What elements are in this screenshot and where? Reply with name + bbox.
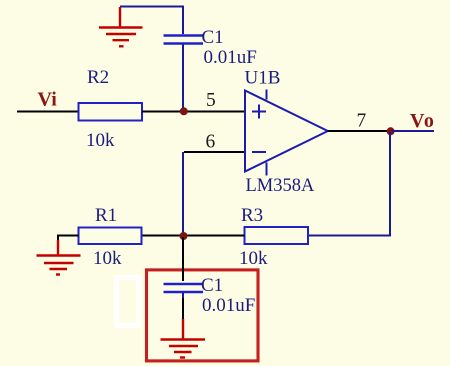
svg-text:LM358A: LM358A <box>246 176 316 196</box>
svg-text:5: 5 <box>206 90 216 111</box>
svg-text:R1: R1 <box>95 205 117 226</box>
svg-text:Vi: Vi <box>38 89 58 111</box>
wire C1 bottom to gnd <box>182 298 184 320</box>
wire R1 to gnd corner <box>58 236 79 242</box>
wire Vi input <box>17 111 78 113</box>
ground GND-bottom <box>161 319 206 358</box>
white artifact rectangle <box>117 278 139 326</box>
junction node 6 bottom <box>180 232 188 240</box>
capacitor C1 bottom <box>164 284 204 292</box>
junction node 5 <box>180 107 188 115</box>
wire node6 to C1 bottom <box>182 237 184 281</box>
wire node5 to pin5 <box>183 111 245 113</box>
resistor R2 <box>79 103 143 121</box>
wire top gnd to C1 <box>120 7 183 35</box>
svg-text:0.01uF: 0.01uF <box>202 295 255 316</box>
wire pin6 <box>184 151 245 153</box>
wire C1 to node5 <box>182 45 184 111</box>
svg-text:0.01uF: 0.01uF <box>204 47 257 68</box>
power pin stub bottom <box>266 163 268 176</box>
svg-text:10k: 10k <box>93 248 122 269</box>
svg-text:7: 7 <box>357 110 367 131</box>
resistor R3 <box>245 227 309 244</box>
wire Vo stub <box>392 130 434 132</box>
red highlight rectangle <box>147 270 259 361</box>
junction output node <box>387 127 395 135</box>
svg-text:U1B: U1B <box>245 68 281 89</box>
svg-text:C1: C1 <box>202 27 224 48</box>
wire feedback vertical and to R3 <box>308 132 390 236</box>
wire R1 to node6 <box>142 235 184 237</box>
svg-text:Vo: Vo <box>410 110 435 132</box>
svg-text:10k: 10k <box>239 248 268 269</box>
wire R2 to node5 <box>142 111 181 113</box>
minus input mark <box>252 151 266 153</box>
ground GND-left <box>37 240 81 275</box>
wire C1 bottom lead <box>182 293 184 299</box>
svg-text:R3: R3 <box>241 205 263 226</box>
ground GND-top <box>99 7 143 46</box>
svg-text:6: 6 <box>206 132 216 153</box>
svg-text:R2: R2 <box>87 67 109 88</box>
power pin stub top <box>266 90 268 100</box>
wire pin7 output <box>328 130 391 132</box>
plus input mark <box>252 105 266 119</box>
wire node6 to R3 <box>183 235 245 237</box>
wire node6 vertical <box>182 152 184 236</box>
capacitor C1 top <box>164 36 204 44</box>
svg-text:C1: C1 <box>201 275 223 296</box>
svg-text:10k: 10k <box>86 130 115 151</box>
op-amp U1B <box>245 90 328 176</box>
resistor R1 <box>79 228 142 245</box>
